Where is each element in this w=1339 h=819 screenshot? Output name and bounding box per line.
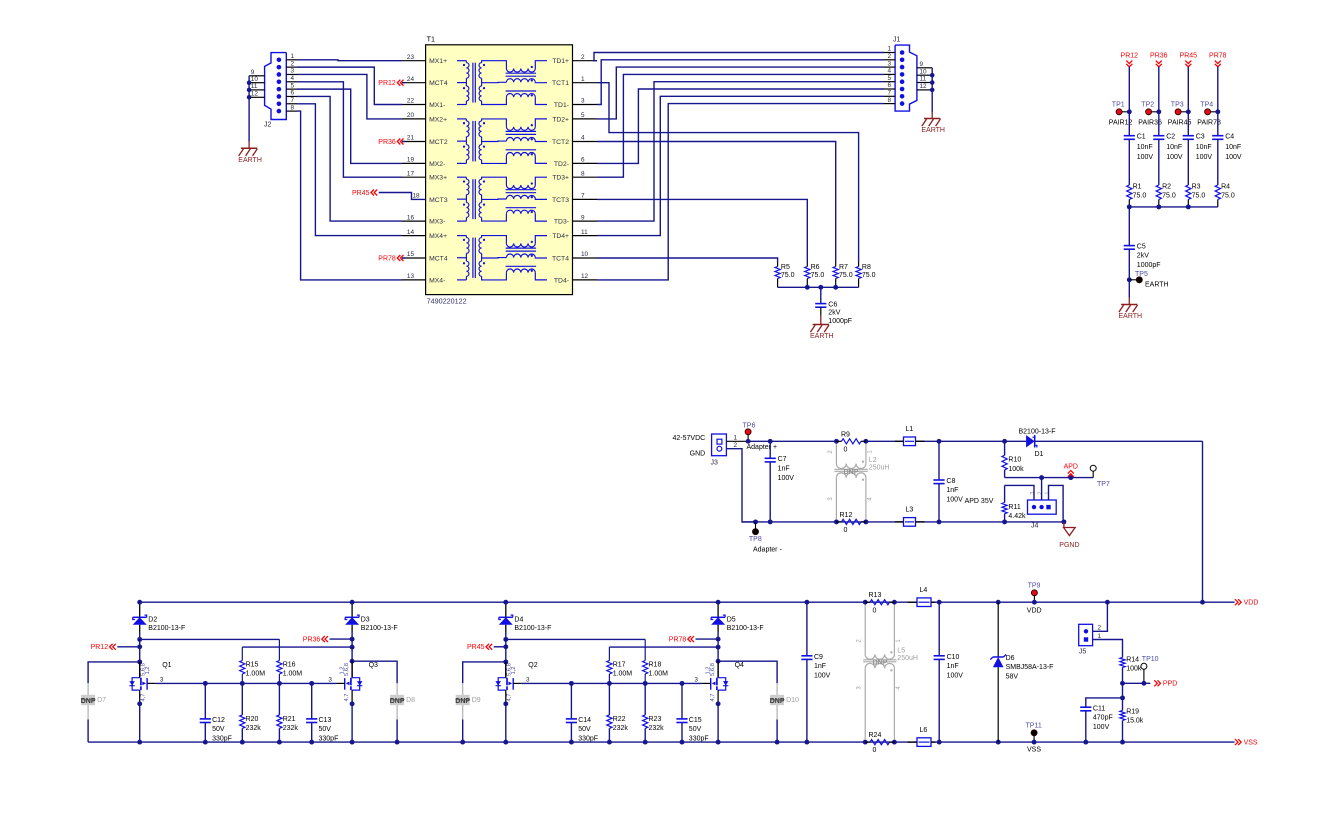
svg-text:TD3+: TD3+ [552, 175, 569, 182]
svg-text:3: 3 [291, 68, 295, 75]
svg-text:B2100-13-F: B2100-13-F [514, 625, 551, 632]
svg-text:2: 2 [734, 442, 738, 449]
svg-text:12: 12 [581, 273, 589, 280]
svg-text:100V: 100V [946, 497, 963, 504]
svg-text:D10: D10 [786, 697, 799, 704]
svg-text:TP11: TP11 [1026, 722, 1042, 729]
svg-text:L2: L2 [869, 457, 877, 464]
svg-text:C12: C12 [212, 717, 225, 724]
svg-text:4: 4 [581, 135, 585, 142]
svg-text:100V: 100V [1166, 154, 1183, 161]
svg-text:2: 2 [291, 60, 295, 67]
svg-text:3: 3 [328, 676, 332, 683]
svg-text:R7: R7 [839, 264, 848, 271]
svg-text:EARTH: EARTH [810, 333, 834, 340]
svg-text:TP10: TP10 [1142, 656, 1159, 663]
svg-text:8: 8 [581, 170, 585, 177]
svg-text:1,2: 1,2 [511, 666, 517, 674]
svg-text:R8: R8 [862, 264, 871, 271]
svg-text:16: 16 [407, 214, 415, 221]
svg-text:6: 6 [291, 90, 295, 97]
svg-text:10: 10 [920, 68, 928, 75]
svg-text:10nF: 10nF [1166, 144, 1182, 151]
svg-text:0: 0 [873, 747, 877, 754]
svg-text:42-57VDC: 42-57VDC [673, 435, 706, 442]
svg-text:R19: R19 [1126, 709, 1139, 716]
svg-text:TCT4: TCT4 [552, 255, 569, 262]
svg-text:6: 6 [887, 82, 891, 89]
svg-text:232k: 232k [283, 725, 299, 732]
svg-text:C1: C1 [1137, 134, 1146, 141]
svg-text:PR78: PR78 [1209, 52, 1227, 59]
svg-text:GND: GND [690, 450, 706, 457]
svg-text:MX3-: MX3- [429, 219, 445, 226]
svg-text:8: 8 [887, 97, 891, 104]
svg-text:15: 15 [407, 251, 415, 258]
svg-text:50V: 50V [319, 726, 332, 733]
svg-text:TP9: TP9 [1028, 582, 1041, 589]
svg-text:100V: 100V [1196, 154, 1213, 161]
svg-text:1,2: 1,2 [339, 666, 345, 674]
svg-text:21: 21 [407, 135, 415, 142]
svg-text:PR45: PR45 [352, 190, 370, 197]
svg-text:12: 12 [251, 91, 259, 98]
svg-text:100k: 100k [1008, 466, 1024, 473]
svg-text:R1: R1 [1133, 183, 1142, 190]
svg-text:R15: R15 [246, 661, 259, 668]
svg-text:PR36: PR36 [303, 637, 321, 644]
svg-text:DNP: DNP [390, 698, 405, 705]
svg-text:B2100-13-F: B2100-13-F [1019, 428, 1056, 435]
svg-text:TCT3: TCT3 [552, 197, 569, 204]
svg-text:11: 11 [920, 76, 927, 83]
svg-text:MX3+: MX3+ [429, 175, 447, 182]
svg-text:6: 6 [581, 157, 585, 164]
svg-text:10nF: 10nF [1196, 144, 1212, 151]
svg-text:DNP: DNP [873, 660, 888, 667]
svg-text:TCT2: TCT2 [552, 139, 569, 146]
svg-text:9: 9 [920, 61, 924, 68]
svg-text:75.0: 75.0 [1192, 192, 1206, 199]
svg-text:TP6: TP6 [743, 422, 756, 429]
svg-text:R3: R3 [1192, 183, 1201, 190]
svg-text:1nF: 1nF [947, 663, 959, 670]
svg-text:2: 2 [1038, 491, 1044, 494]
svg-text:2kV: 2kV [828, 310, 840, 317]
svg-text:2: 2 [887, 53, 891, 60]
svg-text:TP3: TP3 [1171, 101, 1184, 108]
svg-text:1: 1 [734, 434, 738, 441]
svg-text:100V: 100V [1225, 154, 1242, 161]
svg-text:TP8: TP8 [749, 536, 762, 543]
svg-text:5: 5 [887, 75, 891, 82]
svg-text:3: 3 [526, 676, 530, 683]
svg-text:PR12: PR12 [378, 80, 396, 87]
svg-text:VDD: VDD [1027, 608, 1042, 615]
svg-text:100V: 100V [1137, 154, 1154, 161]
svg-text:MX2+: MX2+ [429, 116, 447, 123]
svg-text:250uH: 250uH [869, 465, 890, 472]
svg-text:4: 4 [291, 75, 295, 82]
svg-text:4,7: 4,7 [710, 693, 716, 701]
svg-text:D2: D2 [148, 616, 157, 623]
svg-text:1: 1 [1045, 491, 1051, 494]
svg-text:J3: J3 [711, 459, 719, 466]
svg-text:B2100-13-F: B2100-13-F [361, 625, 398, 632]
svg-text:D7: D7 [97, 697, 106, 704]
svg-text:MX4+: MX4+ [429, 233, 447, 240]
svg-text:Q3: Q3 [369, 662, 378, 669]
svg-text:250uH: 250uH [897, 655, 918, 662]
svg-text:MX2-: MX2- [429, 161, 445, 168]
svg-text:24: 24 [407, 76, 415, 83]
svg-text:20: 20 [407, 112, 415, 119]
svg-text:4,7: 4,7 [507, 693, 513, 701]
svg-text:TD2-: TD2- [554, 161, 569, 168]
svg-text:330pF: 330pF [319, 735, 339, 742]
svg-text:14: 14 [407, 229, 415, 236]
svg-text:1.00M: 1.00M [246, 671, 266, 678]
svg-text:PR78: PR78 [669, 637, 687, 644]
svg-text:75.0: 75.0 [862, 272, 876, 279]
svg-text:Q2: Q2 [528, 662, 537, 669]
svg-text:75.0: 75.0 [1221, 192, 1235, 199]
svg-text:APD 35V: APD 35V [965, 498, 994, 505]
svg-text:PR36: PR36 [378, 139, 396, 146]
svg-text:10: 10 [581, 251, 589, 258]
svg-text:C4: C4 [1225, 134, 1234, 141]
svg-text:3: 3 [887, 60, 891, 67]
svg-text:D6: D6 [1006, 655, 1015, 662]
svg-text:MCT3: MCT3 [429, 197, 448, 204]
svg-text:1nF: 1nF [946, 487, 958, 494]
svg-text:19: 19 [407, 157, 415, 164]
svg-text:D5: D5 [727, 616, 736, 623]
svg-text:100V: 100V [778, 475, 795, 482]
svg-text:1nF: 1nF [814, 663, 826, 670]
svg-text:C5: C5 [1137, 243, 1146, 250]
svg-text:R12: R12 [840, 512, 853, 519]
svg-text:75.0: 75.0 [839, 272, 853, 279]
svg-text:5: 5 [581, 112, 585, 119]
svg-text:PPD: PPD [1163, 681, 1177, 688]
svg-text:1.00M: 1.00M [649, 671, 669, 678]
svg-text:L6: L6 [920, 727, 928, 734]
svg-text:18: 18 [413, 193, 421, 200]
svg-text:4,7: 4,7 [344, 693, 350, 701]
svg-text:J1: J1 [893, 37, 901, 44]
svg-text:PR12: PR12 [91, 644, 109, 651]
svg-text:R13: R13 [869, 592, 882, 599]
svg-text:7: 7 [581, 193, 585, 200]
svg-text:MCT2: MCT2 [429, 139, 448, 146]
svg-text:C10: C10 [947, 654, 960, 661]
svg-text:R6: R6 [811, 264, 820, 271]
svg-text:C15: C15 [689, 717, 702, 724]
svg-text:VSS: VSS [1244, 740, 1258, 747]
svg-text:VDD: VDD [1244, 600, 1259, 607]
svg-text:50V: 50V [212, 726, 225, 733]
svg-text:B2100-13-F: B2100-13-F [148, 625, 185, 632]
svg-text:B2100-13-F: B2100-13-F [727, 625, 764, 632]
svg-text:8: 8 [291, 104, 295, 111]
svg-text:470pF: 470pF [1093, 715, 1113, 722]
svg-text:R11: R11 [1008, 504, 1020, 511]
svg-text:MCT4: MCT4 [429, 255, 448, 262]
svg-text:C11: C11 [1093, 705, 1105, 712]
svg-text:10: 10 [251, 76, 259, 83]
svg-text:232k: 232k [246, 725, 262, 732]
svg-text:J4: J4 [1031, 523, 1039, 530]
svg-text:330pF: 330pF [212, 735, 232, 742]
svg-text:0: 0 [873, 607, 877, 614]
svg-text:L3: L3 [906, 507, 914, 514]
svg-text:PR45: PR45 [1180, 52, 1198, 59]
svg-text:3: 3 [694, 676, 698, 683]
svg-text:0: 0 [844, 447, 848, 454]
svg-text:11: 11 [581, 229, 588, 236]
svg-text:L4: L4 [920, 587, 928, 594]
svg-text:DNP: DNP [81, 698, 96, 705]
svg-text:D4: D4 [514, 616, 523, 623]
svg-text:R22: R22 [613, 716, 626, 723]
svg-text:J2: J2 [264, 122, 272, 129]
svg-text:4.42k: 4.42k [1008, 513, 1026, 520]
svg-text:D1: D1 [1035, 451, 1044, 458]
svg-text:R4: R4 [1221, 183, 1230, 190]
svg-text:17: 17 [407, 170, 415, 177]
svg-text:D9: D9 [472, 697, 481, 704]
svg-text:7: 7 [291, 97, 295, 104]
svg-text:330pF: 330pF [689, 735, 709, 742]
svg-text:15.0k: 15.0k [1126, 718, 1144, 725]
svg-text:PR45: PR45 [467, 644, 485, 651]
svg-text:2: 2 [581, 54, 585, 61]
svg-text:9: 9 [581, 214, 585, 221]
svg-text:R17: R17 [613, 661, 626, 668]
svg-text:PR78: PR78 [378, 255, 396, 262]
svg-text:0: 0 [844, 527, 848, 534]
svg-text:C14: C14 [578, 717, 591, 724]
svg-text:MCT4: MCT4 [429, 80, 448, 87]
svg-text:Adapter +: Adapter + [747, 444, 778, 451]
svg-text:12: 12 [920, 83, 928, 90]
svg-text:R14: R14 [1126, 657, 1139, 664]
svg-text:APD: APD [1064, 463, 1078, 470]
svg-text:5: 5 [291, 82, 295, 89]
svg-text:TP7: TP7 [1097, 481, 1110, 488]
svg-text:TD4-: TD4- [554, 277, 569, 284]
svg-text:1000pF: 1000pF [1137, 262, 1161, 269]
svg-text:7: 7 [887, 90, 891, 97]
svg-text:10nF: 10nF [1137, 144, 1153, 151]
svg-text:10nF: 10nF [1225, 144, 1241, 151]
svg-text:SMBJ58A-13-F: SMBJ58A-13-F [1006, 664, 1054, 671]
svg-text:EARTH: EARTH [1145, 282, 1169, 289]
svg-text:4,7: 4,7 [140, 693, 146, 701]
svg-text:232k: 232k [613, 725, 629, 732]
svg-text:R9: R9 [841, 431, 850, 438]
svg-text:PGND: PGND [1059, 542, 1079, 549]
svg-text:75.0: 75.0 [1133, 192, 1147, 199]
svg-text:D3: D3 [361, 616, 370, 623]
svg-text:50V: 50V [578, 726, 591, 733]
svg-text:1nF: 1nF [778, 466, 790, 473]
svg-text:C8: C8 [946, 478, 955, 485]
svg-text:7490220122: 7490220122 [427, 297, 467, 306]
svg-text:C2: C2 [1166, 134, 1175, 141]
svg-text:330pF: 330pF [578, 735, 598, 742]
svg-text:R16: R16 [283, 661, 296, 668]
svg-text:C9: C9 [814, 654, 823, 661]
svg-text:EARTH: EARTH [1118, 313, 1142, 320]
svg-text:R24: R24 [869, 732, 882, 739]
svg-text:T1: T1 [427, 35, 435, 44]
svg-text:PR12: PR12 [1121, 52, 1139, 59]
svg-text:DNP: DNP [844, 469, 859, 476]
svg-text:100V: 100V [814, 673, 831, 680]
svg-text:R21: R21 [283, 716, 296, 723]
svg-text:VSS: VSS [1027, 747, 1041, 754]
svg-text:100V: 100V [1093, 724, 1110, 731]
svg-text:TP4: TP4 [1200, 101, 1213, 108]
svg-text:3: 3 [160, 676, 164, 683]
svg-text:C13: C13 [319, 717, 332, 724]
svg-text:1.00M: 1.00M [613, 671, 633, 678]
svg-text:C6: C6 [828, 301, 837, 308]
svg-text:232k: 232k [649, 725, 665, 732]
svg-text:1: 1 [887, 46, 891, 53]
svg-text:4: 4 [887, 68, 891, 75]
svg-text:PR36: PR36 [1150, 52, 1168, 59]
svg-text:Adapter -: Adapter - [753, 546, 782, 553]
svg-text:75.0: 75.0 [811, 272, 825, 279]
svg-text:TP5: TP5 [1135, 271, 1148, 278]
svg-text:1.00M: 1.00M [283, 671, 303, 678]
svg-text:Q1: Q1 [162, 662, 171, 669]
svg-text:MX1+: MX1+ [429, 58, 447, 65]
svg-text:22: 22 [407, 98, 415, 105]
svg-text:75.0: 75.0 [781, 272, 795, 279]
svg-text:TD3-: TD3- [554, 219, 569, 226]
svg-text:1000pF: 1000pF [828, 318, 852, 325]
svg-text:TD1-: TD1- [554, 102, 569, 109]
svg-text:13: 13 [407, 273, 415, 280]
svg-text:TD1+: TD1+ [552, 58, 569, 65]
svg-text:TD4+: TD4+ [552, 233, 569, 240]
svg-text:TCT1: TCT1 [552, 80, 569, 87]
svg-text:D8: D8 [406, 697, 415, 704]
svg-text:R2: R2 [1162, 183, 1171, 190]
svg-text:2kV: 2kV [1137, 253, 1149, 260]
svg-text:J5: J5 [1079, 649, 1087, 656]
svg-text:100k: 100k [1126, 666, 1142, 673]
svg-text:100V: 100V [947, 673, 964, 680]
svg-text:EARTH: EARTH [921, 127, 945, 134]
svg-text:TP2: TP2 [1141, 101, 1154, 108]
svg-text:23: 23 [407, 54, 415, 61]
svg-text:R20: R20 [246, 716, 259, 723]
svg-text:R10: R10 [1008, 457, 1021, 464]
svg-text:DNP: DNP [770, 698, 785, 705]
svg-text:1,2: 1,2 [145, 666, 151, 674]
svg-text:1,2: 1,2 [705, 666, 711, 674]
svg-text:C7: C7 [778, 456, 787, 463]
svg-text:1: 1 [291, 53, 295, 60]
svg-text:R18: R18 [649, 661, 662, 668]
svg-text:DNP: DNP [455, 698, 470, 705]
svg-text:C3: C3 [1196, 134, 1205, 141]
svg-text:2: 2 [1098, 625, 1102, 632]
svg-text:MX4-: MX4- [429, 277, 445, 284]
svg-text:R5: R5 [781, 264, 790, 271]
svg-text:50V: 50V [689, 726, 702, 733]
svg-text:EARTH: EARTH [238, 157, 262, 164]
svg-text:L1: L1 [906, 426, 914, 433]
svg-text:11: 11 [251, 83, 258, 90]
svg-text:MX1-: MX1- [429, 102, 445, 109]
svg-text:L5: L5 [897, 648, 905, 655]
svg-text:1: 1 [581, 76, 585, 83]
svg-text:Q4: Q4 [735, 662, 744, 669]
svg-text:TP1: TP1 [1112, 101, 1125, 108]
svg-text:3: 3 [581, 98, 585, 105]
svg-text:3: 3 [1030, 491, 1036, 494]
svg-text:R23: R23 [649, 716, 662, 723]
svg-text:TD2+: TD2+ [552, 116, 569, 123]
svg-text:75.0: 75.0 [1162, 192, 1176, 199]
svg-text:58V: 58V [1006, 674, 1019, 681]
